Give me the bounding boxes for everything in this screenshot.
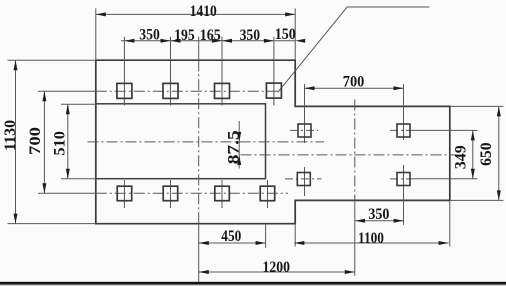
bolt hole RB1 xyxy=(297,173,310,186)
svg-text:1410: 1410 xyxy=(190,3,217,20)
centerline left main horizontal xyxy=(88,141,325,143)
svg-text:450: 450 xyxy=(221,228,241,245)
vertical stub LB3 xyxy=(221,180,223,208)
vertical stub RT1 + 700 ext xyxy=(304,84,306,143)
extension 1200 right xyxy=(354,201,356,276)
dimension 87.5 xyxy=(226,121,243,169)
svg-text:349: 349 xyxy=(452,145,469,169)
bolt hole LB3 xyxy=(215,186,230,201)
svg-text:350: 350 xyxy=(368,206,389,223)
extension bolt col1 xyxy=(123,37,125,106)
dimension 450 xyxy=(199,228,266,245)
bolt hole LT3 xyxy=(215,83,230,98)
dimension 510 xyxy=(51,104,69,179)
bolt hole LT4 xyxy=(266,83,281,98)
dimension 1410 xyxy=(96,3,295,20)
dimension 650 xyxy=(478,106,501,200)
centerline stub RB1 xyxy=(285,178,322,180)
centerline bottom bolt row xyxy=(96,192,288,194)
below-bar gray strip xyxy=(0,285,506,286)
bolt hole RT1 xyxy=(298,124,311,137)
bolt hole LB2 xyxy=(163,186,178,201)
extension 1130 bottom xyxy=(8,223,96,225)
centerline top bolt row xyxy=(96,90,282,92)
base plate outline xyxy=(96,60,450,224)
vertical stub LB2 xyxy=(170,180,172,208)
extension 450 right xyxy=(265,224,267,248)
centerline left vertical xyxy=(198,60,200,224)
centerline stub RB2 xyxy=(390,178,411,180)
extension 450 1200 left xyxy=(198,224,200,282)
extension 510 bottom xyxy=(61,178,96,180)
extension 650 top xyxy=(451,105,504,107)
extension 510 top xyxy=(61,103,96,105)
dimension 700 left xyxy=(27,91,46,193)
bolt hole LT1 xyxy=(117,83,132,98)
dimension 1130 xyxy=(2,60,19,223)
centerline stub RT2 xyxy=(390,129,411,131)
vertical stub LB4 xyxy=(267,180,269,208)
extension 1100 right xyxy=(449,200,451,246)
extension 1100 left xyxy=(294,224,296,247)
extension left edge up xyxy=(95,8,97,60)
extension centerline top xyxy=(198,37,200,60)
bolt hole LT2 xyxy=(163,83,178,98)
extension right step up xyxy=(294,8,296,60)
svg-text:510: 510 xyxy=(51,131,68,156)
vertical stub RB2 + 350 ext xyxy=(403,165,405,225)
bottom border bar xyxy=(0,282,506,285)
extension 349 top xyxy=(410,129,477,131)
vertical stub RT2 + 700 ext xyxy=(403,84,405,140)
svg-text:87.5: 87.5 xyxy=(226,130,243,164)
extension 700L bottom xyxy=(38,192,96,194)
extension bolt col4 xyxy=(273,37,275,106)
dimension 350 bottom right xyxy=(355,206,404,223)
svg-text:165: 165 xyxy=(200,27,221,44)
extension bolt col3 xyxy=(221,37,223,106)
centerline right vertical xyxy=(354,100,356,201)
bolt hole LB4 xyxy=(260,186,275,201)
bolt hole RT2 xyxy=(397,124,410,137)
dimension 1100 xyxy=(294,230,448,247)
leader line to bolt LT4 xyxy=(278,7,430,92)
svg-text:700: 700 xyxy=(343,74,365,91)
centerline right main horizontal xyxy=(241,154,457,156)
bolt hole LB1 xyxy=(117,186,132,201)
svg-text:1130: 1130 xyxy=(2,120,19,151)
svg-text:700: 700 xyxy=(27,127,44,155)
extension 1130 top xyxy=(8,59,96,61)
svg-text:350: 350 xyxy=(139,26,160,43)
dimension 700 right xyxy=(305,74,404,91)
extension 650 bottom xyxy=(451,199,504,201)
svg-text:650: 650 xyxy=(478,142,495,166)
centerline stub RT1 xyxy=(290,129,318,131)
bolt hole RB2 xyxy=(397,173,410,186)
vertical stub RB1 xyxy=(304,167,306,196)
extension 349 bottom xyxy=(410,178,477,180)
dimension 1200 xyxy=(199,259,355,276)
dimension chain 350 195 165 350 150 xyxy=(121,26,305,44)
svg-text:195: 195 xyxy=(174,27,195,44)
svg-text:150: 150 xyxy=(275,26,296,43)
dimension 349 xyxy=(452,130,475,178)
svg-text:1100: 1100 xyxy=(358,230,384,247)
extension 700L top xyxy=(38,90,96,92)
vertical stub LB1 xyxy=(123,180,125,208)
inner rectangle recess xyxy=(96,104,266,179)
svg-text:1200: 1200 xyxy=(263,259,291,276)
extension bolt col2 xyxy=(170,37,172,106)
svg-text:350: 350 xyxy=(240,27,261,44)
